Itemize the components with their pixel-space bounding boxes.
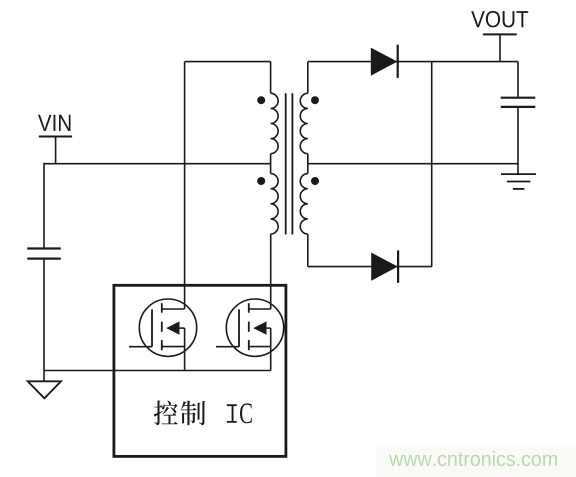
wire Q1 drain vertical bbox=[184, 62, 186, 309]
wire input rail below capacitor bbox=[43, 259, 45, 382]
transformer T1 secondary winding 1 bbox=[300, 93, 308, 153]
watermark www.cntronics.com bbox=[389, 451, 557, 466]
transformer T1 secondary winding 2 bbox=[300, 174, 308, 234]
wire output cap bottom to ground bbox=[517, 107, 519, 174]
wire VOUT stub bbox=[499, 34, 501, 61]
wire VIN stub bbox=[55, 137, 57, 164]
wire secondary center tap to output ground bbox=[308, 163, 518, 165]
node VIN label bbox=[38, 115, 71, 131]
transformer phase dot secondary winding 2 bbox=[311, 177, 319, 185]
wire output cap top bbox=[517, 62, 519, 98]
node VOUT label bbox=[471, 11, 528, 28]
capacitor C1 (input) bbox=[27, 249, 61, 259]
wire VIN horizontal to primary center tap bbox=[44, 163, 271, 165]
diode D1 bbox=[371, 45, 398, 78]
MOSFET Q1 bbox=[129, 299, 197, 356]
wire Q2 source to rail bbox=[270, 328, 272, 370]
VIN terminal bar bbox=[39, 136, 72, 138]
wire diode cathode vertical bbox=[431, 62, 433, 267]
wire top-left horizontal bbox=[185, 61, 271, 63]
transformer T1 core bbox=[286, 93, 293, 234]
ground (input, triangle) bbox=[28, 381, 61, 398]
wire source rail bbox=[44, 370, 271, 372]
VOUT terminal bar bbox=[483, 33, 517, 35]
transformer phase dot primary winding 1 bbox=[257, 96, 265, 104]
diode D2 bbox=[371, 250, 398, 283]
transformer T1 primary winding 1 bbox=[271, 93, 279, 153]
control IC label text "IC" bbox=[227, 403, 252, 423]
transformer T1 secondary top stub bbox=[307, 62, 309, 94]
ground (output, bars) bbox=[501, 174, 536, 189]
transformer T1 primary center tap stub bbox=[270, 154, 272, 174]
wire Q2 drain vertical (primary bottom stub) bbox=[270, 234, 272, 309]
transformer T1 primary winding 2 bbox=[271, 174, 279, 234]
transformer T1 primary top stub bbox=[270, 62, 272, 94]
wire input rail above capacitor bbox=[43, 163, 45, 249]
wire Q1 source to rail bbox=[184, 328, 186, 370]
watermark background band bbox=[376, 447, 576, 477]
control IC label text "Kong" bbox=[154, 401, 178, 426]
transformer T1 secondary bottom stub bbox=[307, 234, 309, 267]
transformer phase dot primary winding 2 bbox=[257, 177, 265, 185]
control IC box U1 bbox=[114, 285, 286, 456]
wire secondary bottom to D2 bbox=[308, 266, 432, 268]
wire output top rail bbox=[308, 61, 518, 63]
control IC label text "Zhi" bbox=[181, 401, 206, 426]
transformer phase dot secondary winding 1 bbox=[311, 96, 319, 104]
transformer T1 secondary center tap stub bbox=[307, 154, 309, 174]
capacitor C2 (output) bbox=[501, 98, 536, 107]
MOSFET Q2 bbox=[216, 299, 284, 356]
